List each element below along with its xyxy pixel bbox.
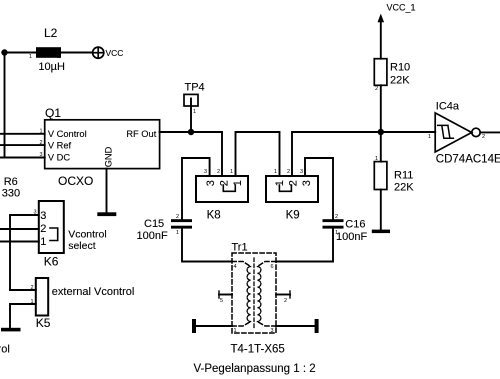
svg-text:2: 2 [284,298,287,304]
svg-text:select: select [68,240,96,252]
inverter output bubble [472,128,480,136]
wire R10 to junction [380,85,382,132]
node junction dot at R10/R11 [378,129,384,135]
inverter IC4a triangle [435,113,472,152]
wire transformer middle stub left [219,294,232,296]
svg-text:C15: C15 [144,218,164,230]
node junction dot TP4 [188,129,194,135]
svg-text:2: 2 [335,214,338,220]
wire Q1 GND down [106,169,108,213]
svg-text:2: 2 [176,214,179,220]
wire K9 pin3 to C16 [305,158,333,219]
svg-text:1: 1 [274,180,286,186]
power VCC symbol [93,47,104,58]
svg-text:C16: C16 [345,219,365,231]
svg-text:1: 1 [29,54,32,60]
svg-text:VCC_1: VCC_1 [387,2,416,12]
svg-text:3: 3 [300,169,303,175]
wire K5 pin1 to ground [10,304,36,328]
svg-text:2: 2 [375,86,378,92]
svg-text:K5: K5 [36,316,51,330]
terminal bar right [315,319,319,333]
svg-text:2: 2 [31,285,34,291]
svg-text:OCXO: OCXO [58,174,93,188]
svg-text:L2: L2 [44,26,58,40]
svg-text:TP4: TP4 [185,82,205,94]
svg-text:2: 2 [40,140,43,146]
svg-text:4: 4 [234,264,237,270]
svg-text:5: 5 [220,298,223,304]
svg-text:K6: K6 [44,254,59,268]
jumper bracket K8 pins 1-2 [223,185,235,191]
wire V DC [0,157,45,159]
svg-text:R11: R11 [394,170,413,182]
faint pin numbers [29,54,485,334]
svg-text:V Ref: V Ref [48,140,72,150]
svg-text:1: 1 [40,236,46,248]
jumper bracket K6 pins 1-2 [50,228,58,241]
transformer Tr1 dashed body [232,253,276,333]
svg-text:1: 1 [274,169,277,175]
svg-text:10µH: 10µH [38,61,65,73]
svg-text:3: 3 [40,210,46,222]
svg-text:V-Pegelanpassung 1 : 2: V-Pegelanpassung 1 : 2 [194,363,316,375]
wire transformer middle stub right [276,294,290,296]
svg-text:22K: 22K [394,182,414,194]
svg-text:1: 1 [335,230,338,236]
svg-text:2: 2 [58,54,61,60]
svg-text:3: 3 [204,169,207,175]
ground under Q1 [97,212,116,216]
wire K8 pin3 to C15 [182,158,210,219]
svg-text:IC4a: IC4a [436,101,460,113]
svg-text:2: 2 [218,180,230,186]
svg-text:Q1: Q1 [45,106,61,120]
wire K9 pin2 to IC input [292,132,435,176]
svg-text:2: 2 [287,169,290,175]
svg-text:K8: K8 [207,210,221,222]
wire V Ref [0,144,45,146]
connector K8 [196,176,248,202]
svg-text:3: 3 [271,328,274,334]
svg-text:330: 330 [2,188,20,200]
svg-text:R10: R10 [390,62,410,74]
transformer left winding [247,267,251,322]
svg-text:CD74AC14E: CD74AC14E [436,154,500,166]
svg-text:22K: 22K [390,75,410,87]
svg-text:K9: K9 [286,210,300,222]
svg-text:VCC: VCC [106,48,124,58]
wire C16 to transformer [276,229,333,262]
svg-text:Tr1: Tr1 [232,242,248,254]
ground under K5 [1,328,21,332]
svg-text:3: 3 [205,180,217,186]
inductor L2 [36,47,61,58]
svg-text:1: 1 [40,129,43,135]
resistor R10 [374,59,387,86]
svg-text:Vcontrol: Vcontrol [68,228,107,240]
svg-text:1: 1 [232,180,244,186]
wire RF Out [160,131,222,133]
wire transformer bottom rail right [276,325,317,327]
capacitor C15 [171,219,192,222]
svg-text:3: 3 [40,152,43,158]
wire K6 pin1 [0,241,39,243]
op-amp Q1 OCXO box [45,120,160,169]
hysteresis symbol [438,125,454,138]
wire K6 pin3 to K5 [10,215,39,290]
svg-text:2: 2 [217,169,220,175]
svg-text:GND: GND [103,146,113,167]
wire C15 to transformer [182,229,232,262]
wire RF to K8 pin2 [221,132,223,176]
svg-text:trol: trol [0,344,10,356]
connector K5 [36,278,48,316]
connector K9 [266,176,318,202]
wire V Control [0,133,45,135]
wire K6 pin2 [0,228,39,230]
wire R11 to ground [380,190,382,231]
svg-text:2: 2 [287,180,299,186]
svg-text:3: 3 [34,210,37,216]
svg-text:T4-1T-X65: T4-1T-X65 [231,344,285,356]
node A junction dot at L2 [1,49,7,55]
svg-text:2: 2 [40,223,46,235]
svg-text:1: 1 [375,156,378,162]
wire node to L2 [5,52,37,54]
wire TP4 down [190,99,192,133]
connector K6 [39,201,64,253]
svg-text:R6: R6 [4,176,18,188]
svg-text:1: 1 [176,230,179,236]
svg-text:2: 2 [482,134,485,140]
test point TP4 [184,94,198,106]
terminal bar left [192,319,196,333]
resistor R11 [374,162,387,190]
transformer right winding [257,267,261,322]
svg-text:V DC: V DC [48,153,70,163]
svg-text:1: 1 [234,328,237,334]
svg-text:RF Out: RF Out [126,129,156,139]
wire IC output [480,131,500,133]
wire left vertical from L2 node down [4,53,6,158]
capacitor C16 [323,219,344,222]
ground under R11 [372,230,390,234]
svg-text:V Control: V Control [48,129,87,139]
svg-text:6: 6 [271,264,274,270]
svg-text:1: 1 [193,109,196,115]
wire junction to R11 [380,132,382,162]
svg-text:1: 1 [31,299,34,305]
jumper bracket K9 pins 1-2 [279,185,291,191]
svg-text:100nF: 100nF [137,230,168,242]
svg-text:3: 3 [301,180,313,186]
wire K8 pin1 to K9 pin1 [236,132,280,176]
power VCC_1 arrow [380,21,382,59]
wire transformer bottom rail left [194,325,233,327]
svg-text:100nF: 100nF [336,231,367,243]
svg-text:external Vcontrol: external Vcontrol [52,286,135,298]
svg-text:1: 1 [428,134,431,140]
wire L2 to VCC [61,52,92,54]
svg-text:1: 1 [230,169,233,175]
